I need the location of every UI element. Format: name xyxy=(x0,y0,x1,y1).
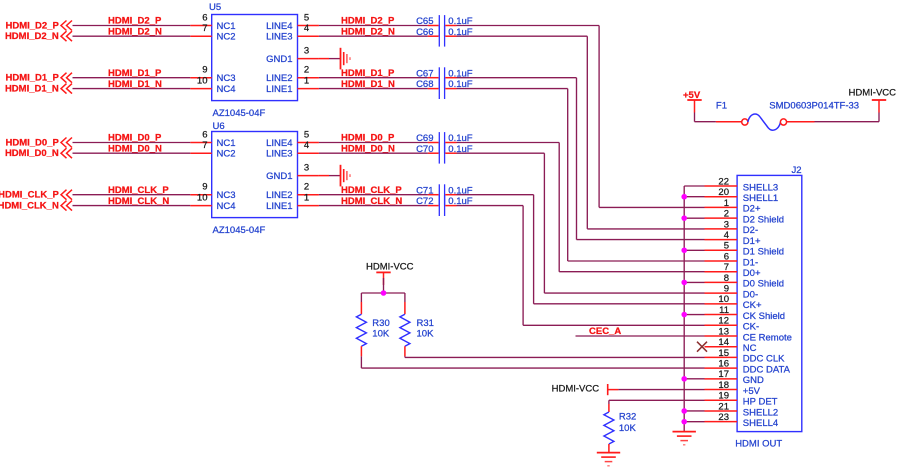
svg-text:9: 9 xyxy=(202,182,207,193)
svg-text:C72: C72 xyxy=(416,196,433,207)
svg-text:1: 1 xyxy=(304,193,309,204)
svg-text:HDMI_D1_N: HDMI_D1_N xyxy=(108,79,162,90)
svg-text:LINE1: LINE1 xyxy=(266,201,292,212)
svg-text:HDMI_D2_P: HDMI_D2_P xyxy=(5,20,59,31)
svg-text:NC1: NC1 xyxy=(217,138,236,149)
svg-text:D0+: D0+ xyxy=(743,268,761,279)
svg-text:1: 1 xyxy=(304,76,309,87)
svg-text:D0 Shield: D0 Shield xyxy=(743,279,784,290)
svg-text:23: 23 xyxy=(718,412,729,423)
svg-text:D2 Shield: D2 Shield xyxy=(743,214,784,225)
svg-text:5: 5 xyxy=(304,12,309,23)
svg-text:SHELL1: SHELL1 xyxy=(743,193,778,204)
svg-text:HP DET: HP DET xyxy=(743,397,778,408)
svg-text:LINE1: LINE1 xyxy=(266,84,292,95)
svg-text:HDMI-VCC: HDMI-VCC xyxy=(849,88,897,99)
svg-text:HDMI_D1_N: HDMI_D1_N xyxy=(5,84,59,95)
svg-text:CK-: CK- xyxy=(743,322,759,333)
svg-text:NC3: NC3 xyxy=(217,190,236,201)
svg-text:D1-: D1- xyxy=(743,257,758,268)
svg-text:GND1: GND1 xyxy=(266,171,292,182)
svg-text:SHELL2: SHELL2 xyxy=(743,407,778,418)
svg-text:10K: 10K xyxy=(619,423,637,434)
svg-text:10: 10 xyxy=(197,193,208,204)
svg-text:D1 Shield: D1 Shield xyxy=(743,247,784,258)
svg-text:R30: R30 xyxy=(372,318,389,329)
svg-text:13: 13 xyxy=(718,326,729,337)
svg-text:LINE2: LINE2 xyxy=(266,190,292,201)
svg-text:11: 11 xyxy=(719,305,729,316)
svg-text:AZ1045-04F: AZ1045-04F xyxy=(213,108,266,119)
svg-text:6: 6 xyxy=(724,251,729,262)
svg-text:D0-: D0- xyxy=(743,289,758,300)
svg-text:NC4: NC4 xyxy=(217,201,236,212)
svg-text:C65: C65 xyxy=(416,16,433,27)
svg-text:R31: R31 xyxy=(417,318,434,329)
svg-text:HDMI_CLK_P: HDMI_CLK_P xyxy=(0,190,59,201)
svg-text:NC2: NC2 xyxy=(217,149,236,160)
svg-text:HDMI_D1_P: HDMI_D1_P xyxy=(108,68,162,79)
svg-text:2: 2 xyxy=(304,182,309,193)
svg-text:10: 10 xyxy=(197,76,208,87)
svg-text:HDMI_CLK_N: HDMI_CLK_N xyxy=(0,201,59,212)
svg-text:6: 6 xyxy=(202,129,207,140)
svg-text:5: 5 xyxy=(724,241,729,252)
svg-text:10K: 10K xyxy=(372,329,390,340)
svg-text:17: 17 xyxy=(718,369,729,380)
svg-text:10K: 10K xyxy=(417,329,435,340)
svg-text:CK+: CK+ xyxy=(743,300,762,311)
svg-text:2: 2 xyxy=(304,65,309,76)
svg-text:1: 1 xyxy=(724,198,729,209)
svg-text:6: 6 xyxy=(202,12,207,23)
svg-text:10: 10 xyxy=(718,294,729,305)
svg-text:NC3: NC3 xyxy=(217,73,236,84)
svg-text:D2-: D2- xyxy=(743,225,758,236)
svg-text:4: 4 xyxy=(304,140,309,151)
svg-text:SMD0603P014TF-33: SMD0603P014TF-33 xyxy=(769,101,859,112)
svg-text:14: 14 xyxy=(718,337,729,348)
svg-text:4: 4 xyxy=(724,230,729,241)
svg-text:9: 9 xyxy=(202,65,207,76)
svg-text:8: 8 xyxy=(724,273,729,284)
svg-text:3: 3 xyxy=(724,219,729,230)
svg-text:C66: C66 xyxy=(416,27,433,38)
svg-text:D1+: D1+ xyxy=(743,236,761,247)
svg-text:U5: U5 xyxy=(209,2,221,13)
svg-text:16: 16 xyxy=(718,359,729,370)
svg-text:DDC DATA: DDC DATA xyxy=(743,364,791,375)
svg-text:CE Remote: CE Remote xyxy=(743,332,792,343)
svg-text:LINE2: LINE2 xyxy=(266,73,292,84)
svg-text:HDMI_CLK_N: HDMI_CLK_N xyxy=(108,196,169,207)
svg-text:HDMI-VCC: HDMI-VCC xyxy=(366,262,414,273)
svg-text:22: 22 xyxy=(718,176,729,187)
svg-text:AZ1045-04F: AZ1045-04F xyxy=(213,225,266,236)
svg-text:21: 21 xyxy=(718,401,729,412)
svg-text:U6: U6 xyxy=(213,121,225,132)
svg-text:GND: GND xyxy=(743,375,764,386)
svg-text:20: 20 xyxy=(718,187,729,198)
svg-text:3: 3 xyxy=(304,163,309,174)
svg-text:C69: C69 xyxy=(416,133,433,144)
svg-text:C70: C70 xyxy=(416,144,433,155)
svg-text:5: 5 xyxy=(304,129,309,140)
svg-text:SHELL4: SHELL4 xyxy=(743,418,778,429)
svg-text:NC4: NC4 xyxy=(217,84,236,95)
svg-text:GND1: GND1 xyxy=(266,54,292,65)
svg-text:C68: C68 xyxy=(416,79,433,90)
svg-text:15: 15 xyxy=(718,348,729,359)
svg-text:4: 4 xyxy=(304,23,309,34)
svg-text:F1: F1 xyxy=(716,101,727,112)
svg-text:HDMI_D2_N: HDMI_D2_N xyxy=(108,26,162,37)
svg-text:DDC CLK: DDC CLK xyxy=(743,354,785,365)
svg-text:NC2: NC2 xyxy=(217,32,236,43)
svg-text:R32: R32 xyxy=(619,412,636,423)
svg-text:18: 18 xyxy=(718,380,729,391)
svg-text:7: 7 xyxy=(724,262,729,273)
svg-text:C67: C67 xyxy=(416,68,433,79)
svg-text:HDMI_D0_N: HDMI_D0_N xyxy=(5,148,59,159)
svg-text:J2: J2 xyxy=(792,165,802,176)
svg-text:HDMI_D2_N: HDMI_D2_N xyxy=(5,31,59,42)
svg-text:9: 9 xyxy=(724,284,729,295)
svg-text:+5V: +5V xyxy=(743,386,761,397)
svg-text:HDMI_D0_N: HDMI_D0_N xyxy=(108,143,162,154)
svg-text:LINE3: LINE3 xyxy=(266,149,292,160)
svg-text:HDMI OUT: HDMI OUT xyxy=(735,439,782,450)
svg-text:2: 2 xyxy=(724,209,729,220)
svg-text:SHELL3: SHELL3 xyxy=(743,182,778,193)
svg-text:HDMI-VCC: HDMI-VCC xyxy=(552,384,600,395)
svg-text:NC: NC xyxy=(743,343,757,354)
svg-text:LINE3: LINE3 xyxy=(266,32,292,43)
svg-text:NC1: NC1 xyxy=(217,21,236,32)
svg-text:HDMI_D1_P: HDMI_D1_P xyxy=(5,73,59,84)
svg-text:3: 3 xyxy=(304,46,309,57)
svg-text:CK Shield: CK Shield xyxy=(743,311,785,322)
svg-text:D2+: D2+ xyxy=(743,204,761,215)
svg-text:7: 7 xyxy=(202,23,207,34)
svg-text:HDMI_D0_P: HDMI_D0_P xyxy=(5,137,59,148)
svg-text:LINE4: LINE4 xyxy=(266,21,292,32)
svg-text:HDMI_CLK_P: HDMI_CLK_P xyxy=(108,185,169,196)
svg-text:C71: C71 xyxy=(416,185,433,196)
svg-text:HDMI_D2_P: HDMI_D2_P xyxy=(108,16,162,27)
svg-text:19: 19 xyxy=(718,391,729,402)
svg-text:LINE4: LINE4 xyxy=(266,138,292,149)
svg-text:12: 12 xyxy=(718,316,729,327)
svg-text:7: 7 xyxy=(202,140,207,151)
svg-text:HDMI_D0_P: HDMI_D0_P xyxy=(108,133,162,144)
